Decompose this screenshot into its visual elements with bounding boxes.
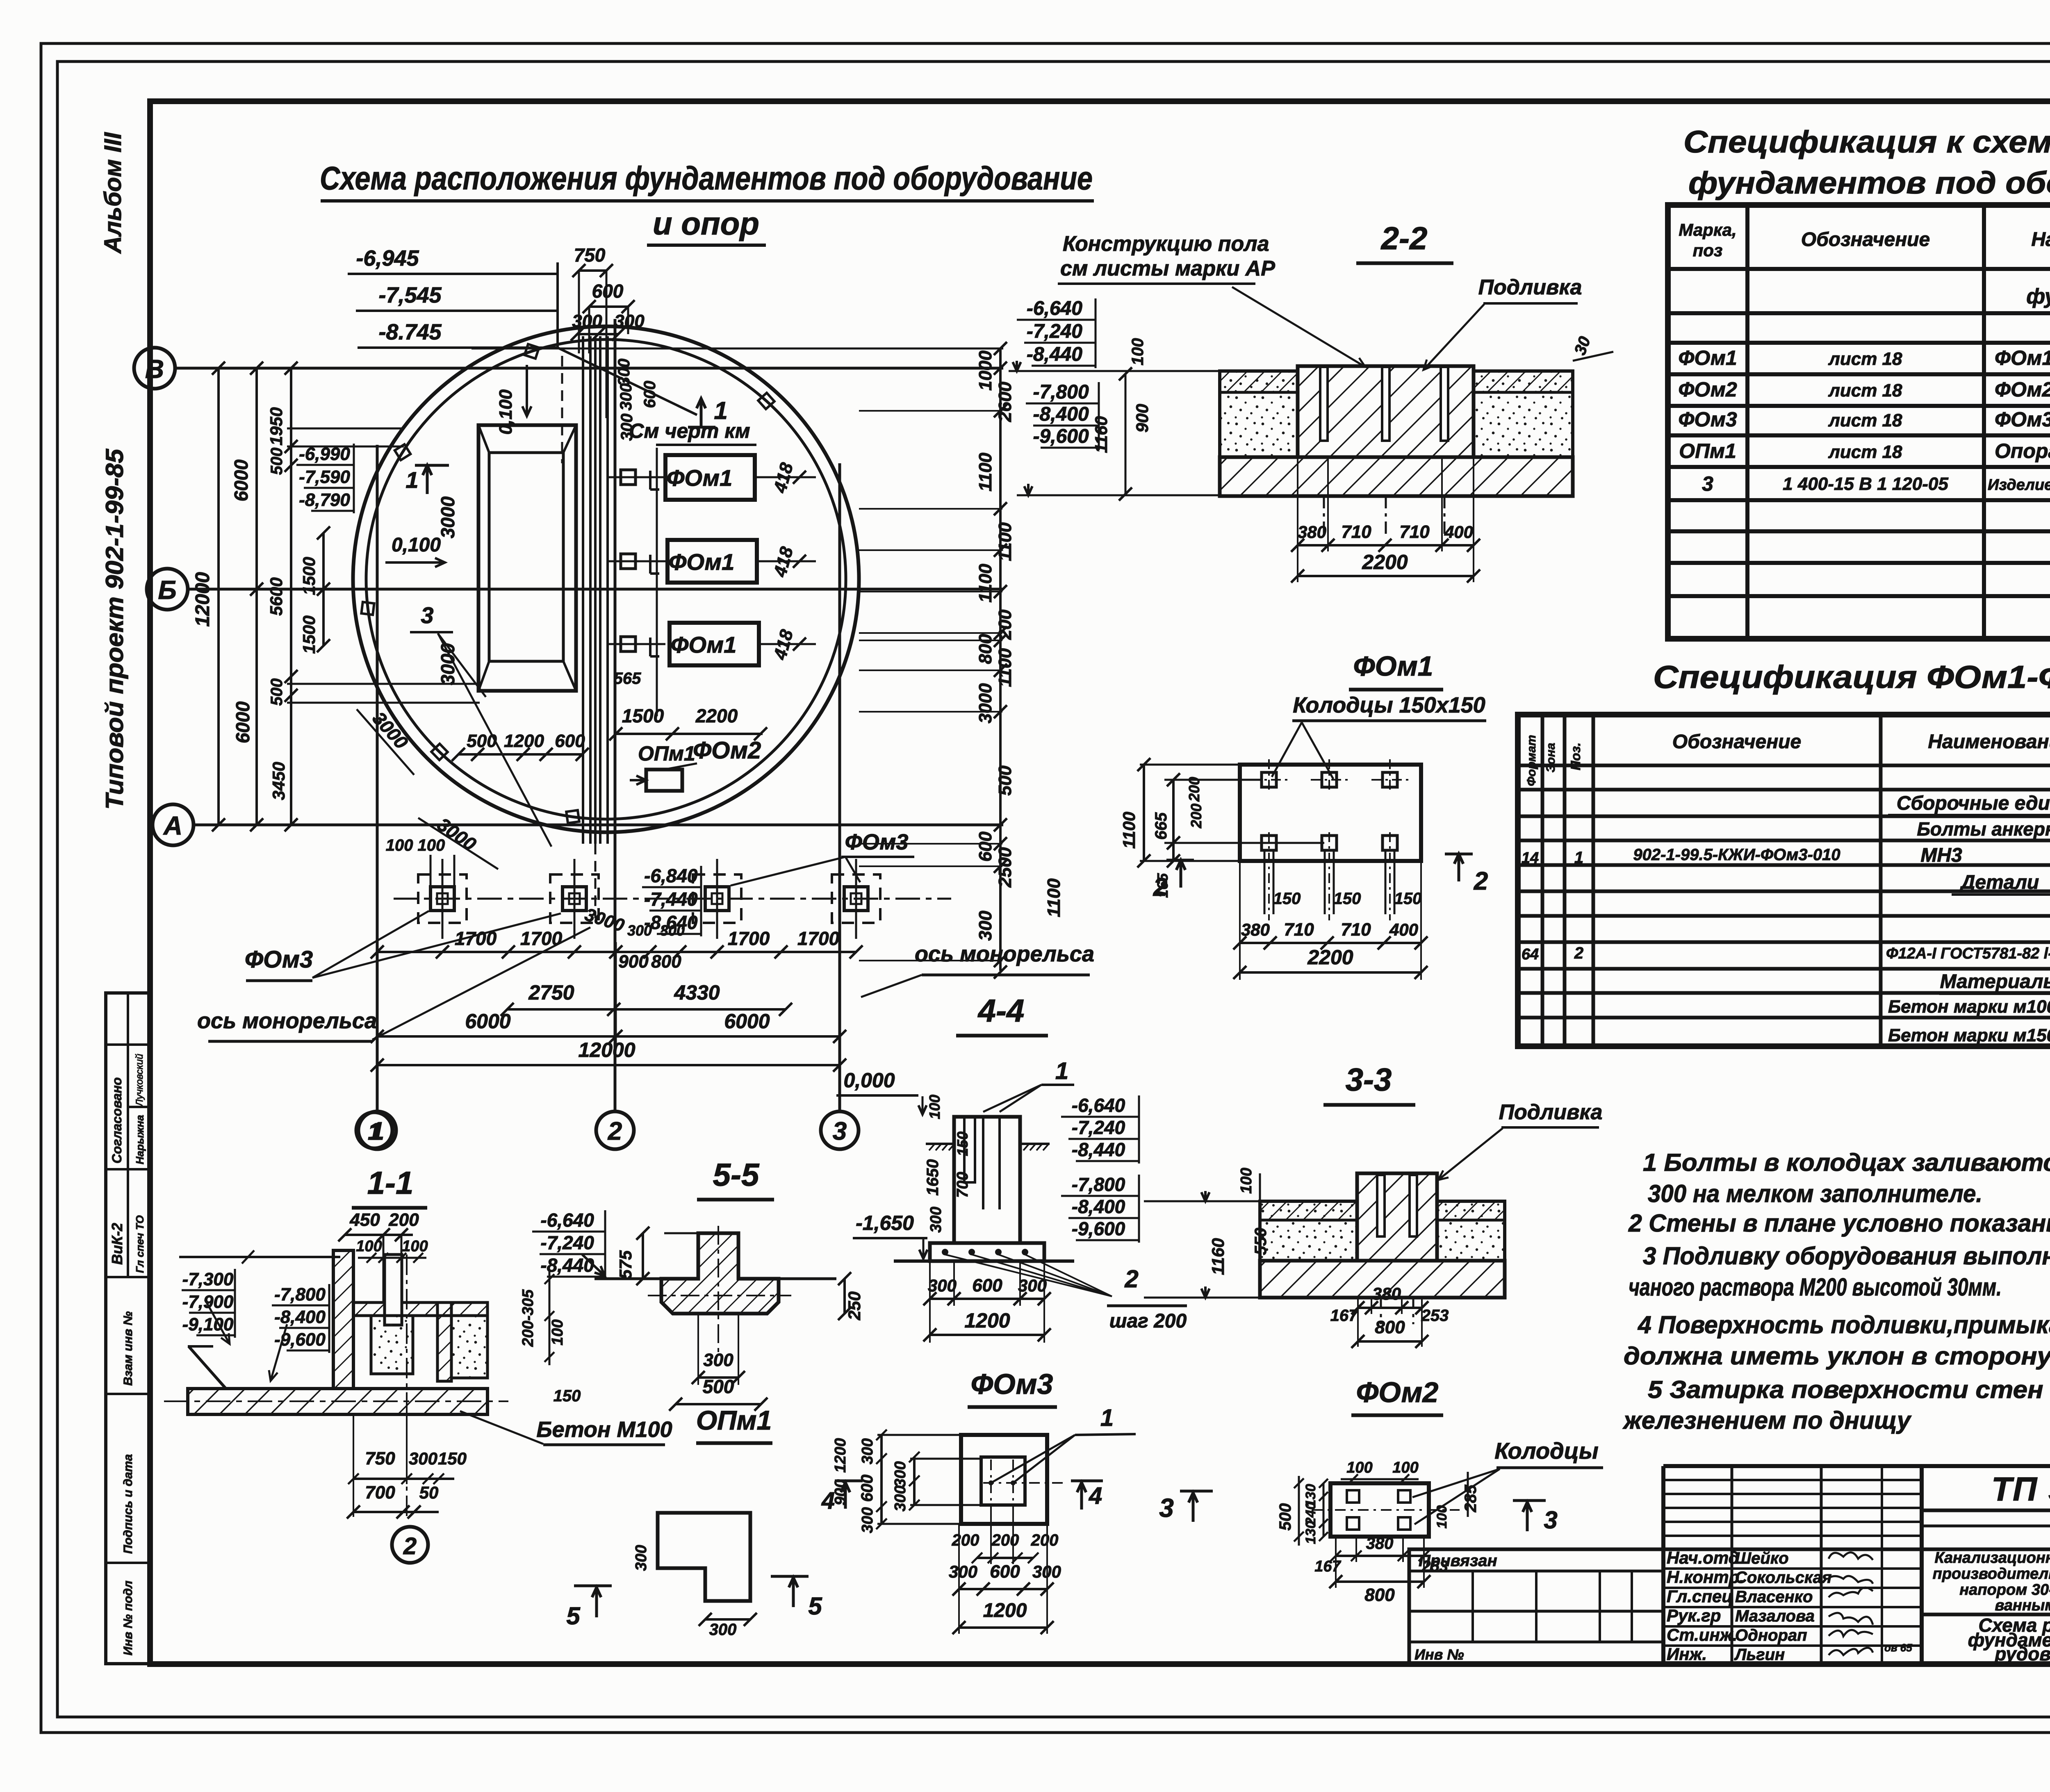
svg-text:-8,400: -8,400 [1072, 1196, 1125, 1217]
svg-text:380: 380 [1298, 522, 1326, 542]
column axis 2 [614, 319, 617, 1111]
left dim line 12000 [217, 368, 220, 825]
svg-text:1100: 1100 [995, 648, 1015, 687]
section mark 1 upper left [426, 465, 429, 494]
svg-text:150: 150 [438, 1449, 467, 1468]
5-5 support cross-section [661, 1233, 779, 1314]
svg-text:-8,790: -8,790 [299, 490, 350, 510]
svg-text:500: 500 [1276, 1503, 1294, 1531]
section 2-2 concrete [1220, 371, 1298, 457]
svg-text:ФОм3: ФОм3 [1678, 408, 1737, 431]
svg-text:2: 2 [1124, 1265, 1138, 1293]
svg-text:1200: 1200 [983, 1600, 1027, 1621]
svg-text:6000: 6000 [465, 1010, 510, 1033]
5-5 dims [642, 1233, 644, 1279]
dim 12000 [377, 1064, 840, 1066]
svg-text:3: 3 [421, 602, 433, 628]
svg-text:должна иметь уклон в сторону о: должна иметь уклон в сторону от оборудов… [1624, 1342, 2050, 1370]
4-4 pedestal [954, 1117, 1020, 1243]
svg-text:3: 3 [833, 1117, 847, 1145]
svg-text:600: 600 [641, 381, 659, 408]
svg-text:Обозначение: Обозначение [1672, 731, 1801, 753]
svg-text:ФОм3: ФОм3 [245, 946, 313, 973]
svg-text:-7,545: -7,545 [378, 283, 442, 307]
svg-text:200: 200 [1031, 1531, 1059, 1549]
svg-text:чаного раствора М200 высотой 3: чаного раствора М200 высотой 30мм. [1629, 1273, 2002, 1301]
svg-text:300: 300 [859, 1438, 876, 1464]
ОПм1 plan L-shape [658, 1513, 750, 1601]
svg-text:производительностью 400 2000м3: производительностью 400 2000м3/ч [1933, 1565, 2050, 1583]
foundation ФОм2 plan rect [646, 770, 682, 791]
svg-text:1: 1 [368, 1118, 381, 1145]
column axis 1 [376, 445, 379, 1111]
svg-text:ОПм1: ОПм1 [638, 742, 695, 765]
section 1-1 top extension line [179, 1256, 340, 1258]
svg-text:5 Затирка поверхности стен кан: 5 Затирка поверхности стен канала и прия… [1648, 1376, 2050, 1403]
svg-text:Подпись и дата: Подпись и дата [121, 1454, 135, 1554]
svg-text:300: 300 [633, 1545, 650, 1571]
svg-text:3000: 3000 [437, 496, 458, 538]
foundation ФОм3 dashed squares [418, 874, 467, 923]
section marks 3 [1180, 1490, 1213, 1493]
joint marks on circle [524, 344, 539, 358]
svg-text:Изделие закладное Мн1056: Изделие закладное Мн1056 [1988, 476, 2050, 494]
svg-text:100: 100 [549, 1319, 566, 1345]
leader 1 at 4-4 top [983, 1085, 1041, 1112]
foundation ФОм1 #1 [665, 455, 755, 500]
svg-text:1000: 1000 [975, 351, 995, 391]
svg-text:900: 900 [1132, 404, 1152, 433]
svg-text:2200: 2200 [1307, 946, 1353, 969]
svg-text:2600: 2600 [995, 382, 1015, 422]
svg-text:-7,240: -7,240 [1027, 321, 1082, 342]
svg-text:3 Подливку оборудования выполн: 3 Подливку оборудования выполнить из цем… [1643, 1242, 2050, 1270]
svg-text:300: 300 [627, 922, 652, 939]
svg-text:6000: 6000 [724, 1010, 770, 1033]
svg-text:ось монорельса: ось монорельса [915, 942, 1094, 966]
svg-text:-8,440: -8,440 [1027, 344, 1082, 365]
1-1 bottom dims [353, 1478, 454, 1480]
svg-text:600: 600 [990, 1562, 1020, 1582]
svg-text:3-3: 3-3 [1346, 1061, 1392, 1098]
svg-text:Гл.спец: Гл.спец [1667, 1587, 1733, 1606]
svg-text:Обозначение: Обозначение [1801, 229, 1930, 250]
svg-text:380: 380 [1366, 1535, 1394, 1553]
svg-text:Болты анкерные: Болты анкерные [1917, 818, 2050, 840]
svg-text:665: 665 [1152, 812, 1170, 840]
svg-text:Наименование: Наименование [1928, 731, 2050, 753]
svg-text:Канализационная насосная станц: Канализационная насосная станция [1934, 1549, 2050, 1567]
svg-text:3000: 3000 [975, 683, 995, 723]
svg-text:4-4: 4-4 [977, 993, 1025, 1029]
svg-text:2200: 2200 [695, 705, 738, 726]
ФОм2 plan rect [1330, 1483, 1429, 1537]
svg-text:800: 800 [651, 952, 681, 972]
svg-text:Марка,: Марка, [1679, 220, 1736, 239]
svg-text:300 на мелком заполнителе.: 300 на мелком заполнителе. [1648, 1180, 1982, 1207]
svg-text:ФОм1: ФОм1 [1995, 346, 2050, 369]
svg-text:400: 400 [1389, 920, 1418, 939]
svg-text:14: 14 [1522, 849, 1539, 867]
svg-text:1: 1 [1574, 849, 1583, 867]
svg-text:Конструкцию пола: Конструкцию пола [1063, 232, 1269, 256]
section marks 4 [835, 1480, 863, 1482]
section 1-1 wall [333, 1250, 353, 1389]
svg-text:-9,600: -9,600 [1072, 1218, 1125, 1239]
ФОм3 detail squares [961, 1435, 1047, 1524]
section 1-1 left slope [189, 1346, 226, 1389]
svg-text:2500: 2500 [995, 847, 1015, 888]
svg-text:Поз.: Поз. [1568, 742, 1583, 770]
svg-text:Зона: Зона [1544, 743, 1558, 772]
svg-text:1500: 1500 [299, 615, 319, 653]
svg-text:500: 500 [703, 1376, 734, 1397]
svg-text:6000: 6000 [230, 459, 252, 501]
section marks 2 [1180, 860, 1182, 888]
svg-text:300: 300 [892, 1485, 909, 1511]
svg-text:Б: Б [158, 575, 176, 605]
svg-text:167: 167 [1330, 1307, 1358, 1325]
svg-text:1100: 1100 [1044, 878, 1064, 917]
svg-text:ФОм3: ФОм3 [971, 1368, 1053, 1400]
foundation ФОм1 #3 [670, 623, 759, 665]
axis line В [175, 367, 1003, 370]
leader 2 шаг 200 [945, 1255, 1112, 1296]
svg-text:5: 5 [808, 1592, 822, 1620]
svg-text:64: 64 [1522, 946, 1539, 963]
svg-text:-8,400: -8,400 [274, 1307, 326, 1327]
svg-text:750: 750 [365, 1448, 395, 1469]
section 3-3 concrete [1260, 1201, 1357, 1261]
svg-text:Однорап: Однорап [1735, 1626, 1807, 1644]
svg-text:150: 150 [1394, 890, 1422, 908]
svg-text:100: 100 [1238, 1168, 1255, 1193]
section 1-1 right stipple [451, 1316, 487, 1378]
svg-text:Гл спеч ТО: Гл спеч ТО [134, 1215, 146, 1273]
svg-text:800: 800 [1364, 1585, 1395, 1605]
svg-text:лист 18: лист 18 [1828, 349, 1902, 369]
svg-text:1200: 1200 [964, 1309, 1010, 1332]
svg-text:0,000: 0,000 [843, 1069, 895, 1092]
svg-text:Подливка: Подливка [1499, 1100, 1603, 1124]
svg-text:550: 550 [1252, 1228, 1270, 1255]
svg-text:2200: 2200 [1362, 551, 1408, 574]
svg-text:-7,800: -7,800 [1072, 1174, 1125, 1195]
svg-text:2: 2 [403, 1533, 417, 1560]
title block staff rows [1663, 1567, 1922, 1570]
4-4 footing [930, 1243, 1044, 1261]
svg-text:300: 300 [572, 311, 602, 331]
svg-text:Колодцы 150х150: Колодцы 150х150 [1293, 693, 1485, 717]
column axis 3 [838, 463, 841, 1111]
svg-text:лист 18: лист 18 [1828, 442, 1902, 462]
svg-text:600: 600 [972, 1275, 1002, 1296]
svg-text:Инв №: Инв № [1414, 1646, 1464, 1663]
ФОм1 detail left dims [1143, 765, 1145, 861]
svg-text:1200: 1200 [504, 731, 544, 751]
svg-text:3450: 3450 [269, 762, 288, 800]
svg-text:100: 100 [1129, 338, 1147, 366]
svg-text:Ф12А-I ГОСТ5781-82 l-1150: Ф12А-I ГОСТ5781-82 l-1150 [1886, 945, 2050, 962]
svg-text:Бетон М100: Бетон М100 [536, 1417, 672, 1442]
svg-text:Колодцы: Колодцы [1494, 1438, 1598, 1464]
svg-text:1200: 1200 [832, 1438, 849, 1473]
leader 1 ФОм3 [991, 1435, 1075, 1483]
svg-text:-7,900: -7,900 [182, 1292, 234, 1312]
svg-text:5-5: 5-5 [713, 1157, 760, 1193]
svg-text:Взам инв №: Взам инв № [121, 1312, 135, 1386]
svg-text:710: 710 [1341, 920, 1371, 940]
svg-text:-6,990: -6,990 [299, 444, 350, 464]
ground hatch left/right of pedestal [926, 1143, 954, 1145]
svg-text:-7,590: -7,590 [299, 467, 350, 487]
svg-text:0,100: 0,100 [392, 534, 441, 556]
svg-text:1160: 1160 [1091, 416, 1111, 453]
svg-text:300: 300 [617, 383, 635, 411]
svg-text:150: 150 [1273, 890, 1301, 908]
svg-text:3: 3 [1702, 472, 1713, 495]
svg-text:ТП 902-1-99- 85 -КЖ: ТП 902-1-99- 85 -КЖ [1991, 1471, 2050, 1508]
title block revision grid [1663, 1479, 1922, 1481]
svg-text:253: 253 [1421, 1307, 1449, 1325]
svg-text:5: 5 [566, 1602, 581, 1630]
svg-text:ФОм1: ФОм1 [667, 465, 733, 491]
axis circle Б [147, 569, 188, 610]
5-5 floor line [594, 1277, 698, 1280]
svg-text:2-2: 2-2 [1380, 220, 1428, 256]
svg-text:6000: 6000 [232, 701, 253, 743]
svg-text:100: 100 [1392, 1459, 1418, 1476]
svg-text:200: 200 [388, 1210, 419, 1230]
dim 2750 / 4330 [507, 1008, 786, 1011]
418 dimension leaders [755, 476, 816, 478]
svg-text:фундаментов под оборудование и: фундаментов под оборудование и опор [1688, 166, 2050, 200]
svg-text:1100: 1100 [975, 453, 995, 492]
svg-text:2 Стены в плане условно показа: 2 Стены в плане условно показаны монолит… [1628, 1209, 2050, 1237]
pit inner rectangle [489, 453, 563, 661]
svg-text:300: 300 [928, 1276, 957, 1295]
svg-text:710: 710 [1284, 920, 1314, 940]
svg-text:130: 130 [1303, 1521, 1319, 1544]
svg-text:4: 4 [821, 1487, 835, 1514]
axis circle В [134, 348, 175, 389]
svg-text:600: 600 [592, 280, 624, 302]
svg-text:напором 30-40м с механизиро-: напором 30-40м с механизиро- [1959, 1581, 2050, 1598]
svg-text:Типовой проект 902-1-99-85: Типовой проект 902-1-99-85 [101, 448, 128, 810]
left dim 1500/1500 [322, 533, 325, 646]
svg-text:1: 1 [714, 397, 727, 424]
svg-text:и опор: и опор [653, 205, 759, 241]
ФОм3 left dims [880, 1435, 883, 1524]
svg-text:565: 565 [614, 669, 641, 688]
svg-text:600: 600 [555, 731, 585, 751]
left margin stamp column [106, 993, 150, 1664]
svg-text:200: 200 [991, 1531, 1019, 1549]
left dim chain 1950/500/5600/500/3450 [290, 368, 292, 825]
svg-text:150: 150 [954, 1132, 971, 1156]
svg-text:900: 900 [618, 952, 649, 972]
svg-text:300: 300 [660, 922, 685, 939]
svg-text:100: 100 [926, 1095, 943, 1119]
svg-text:-6,945: -6,945 [356, 246, 419, 271]
svg-text:фундаменты: фундаменты [2026, 285, 2050, 308]
svg-text:1950: 1950 [266, 407, 286, 445]
section 1-1 floor strip [353, 1302, 487, 1316]
svg-text:-9,100: -9,100 [182, 1314, 234, 1334]
svg-text:Альбом III: Альбом III [100, 132, 126, 254]
svg-text:150: 150 [1334, 890, 1361, 908]
section 1-1 bottom slab [188, 1389, 487, 1414]
svg-text:Инв № подл: Инв № подл [121, 1580, 135, 1655]
svg-text:300: 300 [409, 1449, 437, 1468]
svg-text:300: 300 [927, 1207, 945, 1232]
svg-text:ФОм2: ФОм2 [1995, 378, 2050, 401]
svg-text:250: 250 [845, 1291, 864, 1321]
specification table 2 [1518, 715, 2050, 1046]
svg-text:Шейко: Шейко [1735, 1549, 1789, 1567]
svg-text:Формат: Формат [1525, 735, 1538, 786]
svg-text:100: 100 [1434, 1505, 1450, 1529]
svg-text:1100: 1100 [975, 564, 995, 603]
svg-text:500: 500 [467, 731, 497, 751]
svg-text:253: 253 [1421, 1558, 1448, 1575]
svg-text:Спецификация к схеме расположе: Спецификация к схеме расположения [1683, 125, 2050, 159]
svg-text:лист 18: лист 18 [1828, 410, 1902, 430]
svg-text:1100: 1100 [1119, 812, 1139, 849]
svg-text:-6,640: -6,640 [540, 1209, 594, 1231]
anchor bolts 2-2 [1320, 367, 1328, 441]
svg-text:ВиК-2: ВиК-2 [109, 1223, 125, 1265]
section 1-1 circle 1 [356, 1112, 392, 1148]
svg-text:Детали: Детали [1959, 872, 2039, 893]
svg-text:2: 2 [1153, 873, 1167, 902]
svg-text:Мазалова: Мазалова [1735, 1607, 1815, 1625]
svg-text:750: 750 [574, 244, 606, 266]
svg-text:1700: 1700 [728, 928, 770, 949]
svg-text:поз: поз [1693, 241, 1723, 260]
svg-text:1700: 1700 [520, 928, 563, 949]
svg-text:300: 300 [949, 1562, 977, 1581]
svg-text:Рук.гр: Рук.гр [1667, 1606, 1721, 1625]
ФОм2 bottom dims [1336, 1555, 1424, 1557]
svg-text:1160: 1160 [1208, 1238, 1228, 1275]
svg-text:2750: 2750 [528, 981, 574, 1004]
svg-text:300: 300 [615, 359, 633, 386]
svg-text:1650: 1650 [924, 1159, 942, 1196]
monorail channel lines [582, 336, 584, 844]
svg-text:лист 18: лист 18 [1828, 380, 1902, 401]
svg-text:Согласовано: Согласовано [109, 1077, 124, 1164]
dims 3-3 bottom [1358, 1307, 1422, 1309]
svg-text:ов 65: ов 65 [1884, 1642, 1912, 1654]
svg-text:Ст.инж.: Ст.инж. [1667, 1625, 1737, 1644]
svg-text:300: 300 [618, 414, 636, 441]
svg-text:ФОм3: ФОм3 [1995, 408, 2050, 431]
svg-text:3: 3 [1544, 1506, 1557, 1534]
extension lines upper [287, 428, 404, 430]
svg-text:шаг 200: шаг 200 [1109, 1310, 1187, 1332]
svg-text:710: 710 [1399, 522, 1430, 542]
svg-text:-7,300: -7,300 [182, 1269, 234, 1289]
svg-text:-6,640: -6,640 [1072, 1095, 1125, 1116]
tank outer circle [353, 326, 859, 832]
svg-text:100: 100 [1346, 1459, 1372, 1476]
title block [1661, 1466, 1665, 1664]
svg-text:700: 700 [365, 1482, 395, 1503]
svg-text:ФОм3: ФОм3 [845, 830, 909, 854]
svg-text:1500: 1500 [622, 705, 664, 726]
svg-text:ФОм1: ФОм1 [671, 632, 737, 658]
svg-text:1700: 1700 [797, 928, 840, 949]
svg-text:1: 1 [1100, 1405, 1114, 1431]
svg-text:1100: 1100 [995, 522, 1015, 561]
title block big cell ТП 902-1-99-85 -КЖ [1922, 1509, 2050, 1512]
svg-text:2: 2 [1574, 944, 1583, 962]
svg-text:ФОм1: ФОм1 [1353, 651, 1433, 682]
svg-text:200: 200 [952, 1531, 979, 1549]
dims 1500 2200 under ФОм1 [616, 733, 763, 735]
4-4 bottom dims [930, 1298, 1044, 1300]
svg-text:ФОм1: ФОм1 [1678, 346, 1737, 369]
svg-text:300: 300 [892, 1461, 909, 1487]
anchor marks near ФОм1 [621, 470, 635, 485]
svg-text:Сокольская: Сокольская [1735, 1569, 1831, 1587]
svg-text:Наименование: Наименование [2031, 229, 2050, 250]
svg-text:380: 380 [1241, 920, 1270, 939]
svg-text:500: 500 [268, 448, 286, 475]
svg-text:ФОм1: ФОм1 [669, 549, 735, 575]
svg-text:300: 300 [703, 1350, 733, 1370]
axis line А [194, 824, 1003, 827]
svg-text:100 100: 100 100 [386, 836, 445, 854]
svg-text:600: 600 [858, 1475, 876, 1502]
svg-text:1 Болты в колодцах заливаются: 1 Болты в колодцах заливаются бетоном ма… [1643, 1149, 2050, 1176]
svg-text:Сборочные единицы: Сборочные единицы [1897, 792, 2050, 814]
svg-text:300: 300 [614, 311, 645, 331]
svg-text:Инж.: Инж. [1667, 1644, 1707, 1664]
svg-text:Бетон марки м100: Бетон марки м100 [1888, 997, 2050, 1017]
svg-text:300: 300 [975, 911, 995, 941]
svg-text:12000: 12000 [192, 572, 214, 627]
svg-text:4 Поверхность подливки,примыка: 4 Поверхность подливки,примыкающая к обо… [1638, 1311, 2050, 1339]
svg-text:500: 500 [268, 679, 286, 706]
svg-text:МН3: МН3 [1920, 845, 1962, 866]
svg-text:см листы марки АР: см листы марки АР [1060, 257, 1275, 280]
section 1-1 right wall [437, 1302, 451, 1381]
svg-text:200: 200 [1186, 777, 1203, 802]
svg-text:450: 450 [349, 1210, 380, 1230]
section mark 1 in circle [700, 398, 703, 427]
svg-text:1 400-15 В 1 120-05: 1 400-15 В 1 120-05 [1783, 474, 1948, 494]
dim 6000 6000 [377, 1035, 840, 1038]
svg-text:4330: 4330 [674, 981, 720, 1004]
svg-text:600: 600 [975, 831, 995, 862]
svg-text:А: А [163, 811, 182, 840]
svg-text:1: 1 [405, 467, 418, 493]
section marks 5 [574, 1585, 612, 1587]
svg-text:Нарыжна: Нарыжна [134, 1115, 146, 1164]
svg-text:ОПм1: ОПм1 [696, 1405, 772, 1435]
tank inner circle [366, 339, 846, 819]
svg-text:575: 575 [616, 1250, 635, 1279]
svg-text:300: 300 [859, 1507, 876, 1533]
section 1-1 grout stipple [371, 1316, 413, 1374]
svg-text:Подливка: Подливка [1478, 276, 1582, 299]
svg-text:Льгин: Льгин [1734, 1646, 1785, 1664]
specification table 1 [1668, 205, 2050, 639]
axis circle А [153, 804, 194, 845]
svg-text:рудование и опор: рудование и опор [1994, 1643, 2050, 1664]
